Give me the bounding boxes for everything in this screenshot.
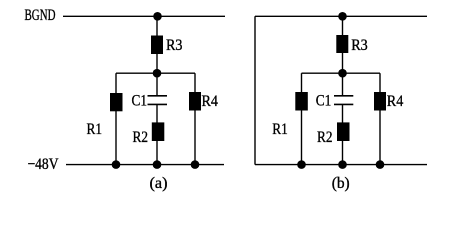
svg-text:R2: R2: [317, 129, 333, 146]
wire R2 bottom lead (a): [156, 141, 158, 165]
capacitor C1 (b): [334, 96, 353, 105]
wire bottom rail (a): [66, 164, 224, 166]
wire R4 top lead (a): [194, 73, 196, 92]
svg-text:C1: C1: [132, 92, 148, 109]
node bottom left (b): [297, 160, 306, 169]
resistor R3: [151, 36, 163, 55]
wire inner top bar (a): [116, 72, 195, 74]
svg-text:C1: C1: [316, 92, 332, 109]
wire R3 bottom lead (a): [156, 54, 158, 73]
svg-text:R1: R1: [87, 121, 103, 138]
wire top rail (a): [63, 15, 225, 17]
wire R4 bottom lead (a): [194, 110, 196, 164]
node mid junction (b): [338, 69, 347, 78]
svg-text:R2: R2: [133, 129, 149, 146]
wire R1 top lead (b): [301, 73, 303, 92]
resistor R4: [189, 92, 201, 111]
node bottom mid (a): [153, 160, 162, 169]
capacitor C1: [148, 96, 168, 105]
resistor R2 (b): [337, 122, 350, 141]
svg-text:(b): (b): [332, 175, 350, 192]
svg-text:BGND: BGND: [25, 7, 56, 24]
svg-text:(a): (a): [150, 175, 168, 192]
resistor R4 (b): [374, 92, 386, 111]
svg-text:R4: R4: [202, 93, 219, 110]
svg-text:R4: R4: [387, 93, 404, 110]
wire C1 to R2 (a): [156, 104, 158, 123]
node mid junction (a): [153, 69, 162, 78]
resistor R1: [110, 93, 123, 111]
svg-text:R1: R1: [272, 121, 288, 138]
wire R3 top lead (a): [156, 16, 158, 36]
wire outer left edge (b): [254, 16, 256, 164]
node bottom left (a): [112, 160, 121, 169]
wire C1 top lead (a): [156, 73, 158, 96]
wire R1 bottom lead (b): [301, 110, 303, 164]
node bottom right (b): [376, 160, 385, 169]
svg-text:R3: R3: [166, 37, 183, 54]
wire R1 top lead (a): [115, 73, 117, 93]
wire C1 top lead (b): [342, 73, 344, 96]
svg-text:−48V: −48V: [28, 156, 59, 173]
wire R3 top lead (b): [342, 16, 344, 35]
wire inner top bar (b): [302, 72, 381, 74]
node bottom mid (b): [338, 160, 347, 169]
wire C1 to R2 (b): [342, 104, 344, 123]
node top junction (a): [153, 12, 162, 21]
svg-text:R3: R3: [351, 37, 368, 54]
resistor R2: [152, 122, 165, 141]
node bottom right (a): [191, 160, 200, 169]
node top junction (b): [338, 12, 347, 21]
wire R1 bottom lead (a): [115, 111, 117, 165]
wire top rail (b): [255, 15, 427, 17]
resistor R1 (b): [295, 92, 308, 111]
wire R2 bottom lead (b): [342, 141, 344, 165]
wire bottom rail (b): [255, 164, 427, 166]
resistor R3 (b): [336, 35, 348, 53]
wire R4 top lead (b): [379, 73, 381, 92]
wire R4 bottom lead (b): [379, 110, 381, 164]
wire R3 bottom lead (b): [342, 53, 344, 73]
